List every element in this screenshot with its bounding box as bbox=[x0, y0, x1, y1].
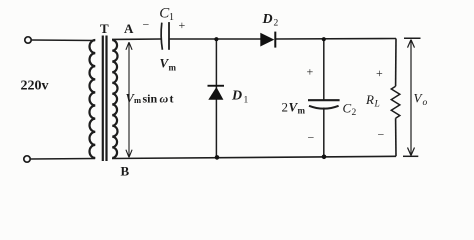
svg-text:A: A bbox=[124, 21, 134, 36]
svg-text:−: − bbox=[308, 131, 315, 145]
svg-text:m: m bbox=[134, 95, 141, 105]
svg-text:1: 1 bbox=[244, 96, 249, 106]
svg-text:m: m bbox=[169, 63, 177, 73]
svg-text:D: D bbox=[231, 89, 242, 104]
svg-text:sin: sin bbox=[143, 91, 158, 105]
svg-text:ω: ω bbox=[160, 91, 169, 105]
svg-text:C: C bbox=[343, 101, 352, 116]
svg-text:R: R bbox=[365, 92, 374, 107]
svg-text:+: + bbox=[376, 66, 383, 80]
svg-text:1: 1 bbox=[169, 12, 174, 23]
svg-text:o: o bbox=[423, 98, 428, 108]
svg-text:D: D bbox=[262, 12, 273, 27]
svg-text:+: + bbox=[179, 18, 186, 32]
svg-text:T: T bbox=[100, 21, 109, 36]
svg-text:−: − bbox=[143, 18, 150, 32]
svg-text:−: − bbox=[378, 128, 385, 142]
svg-text:t: t bbox=[170, 91, 174, 105]
svg-text:m: m bbox=[298, 106, 306, 116]
svg-text:2: 2 bbox=[282, 100, 289, 115]
svg-text:L: L bbox=[374, 100, 380, 110]
svg-text:220v: 220v bbox=[21, 79, 49, 94]
svg-text:+: + bbox=[307, 65, 314, 79]
svg-text:B: B bbox=[121, 164, 130, 179]
svg-text:2: 2 bbox=[274, 19, 279, 29]
svg-text:2: 2 bbox=[352, 108, 357, 118]
